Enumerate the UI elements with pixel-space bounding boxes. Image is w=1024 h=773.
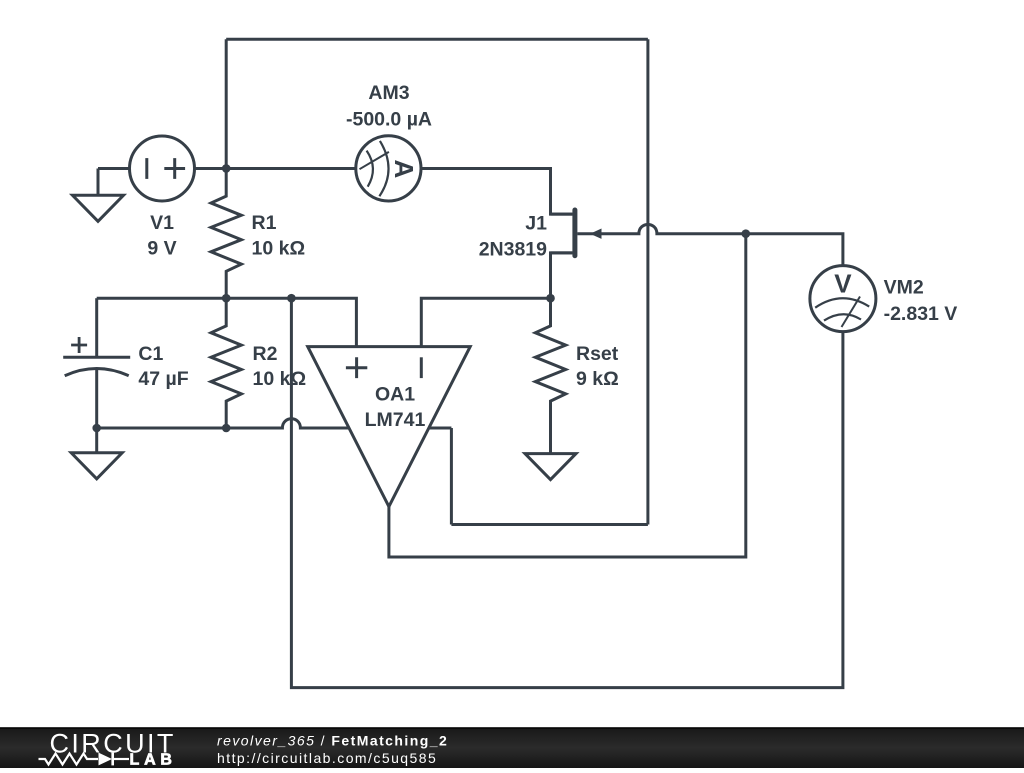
resistor R2 — [211, 298, 241, 428]
svg-text:2N3819: 2N3819 — [479, 239, 547, 261]
wire op-amp output loop — [389, 234, 746, 557]
svg-text:OA1: OA1 — [375, 383, 415, 405]
wire top-left vertical — [225, 39, 228, 168]
svg-text:-2.831 V: -2.831 V — [884, 303, 958, 325]
node R1/R2 mid — [222, 294, 231, 303]
node gate / output / VM2 — [742, 229, 751, 238]
svg-text:revolver_365 / FetMatching_2: revolver_365 / FetMatching_2 — [217, 733, 448, 749]
voltage source V1 — [130, 136, 195, 201]
wire top horizontal — [226, 38, 648, 41]
voltmeter VM2 — [810, 266, 876, 332]
transistor J1 (N-JFET) — [551, 210, 602, 256]
wire gate node to VM2 top — [746, 234, 843, 266]
svg-text:V1: V1 — [150, 212, 174, 234]
node J1 source / Rset / minus input — [546, 294, 555, 303]
node VM2 return on mid rail — [287, 294, 296, 303]
ammeter AM3 — [356, 136, 421, 201]
ground under Rset — [525, 428, 576, 480]
op-amp OA1 — [308, 347, 471, 507]
resistor Rset — [535, 298, 565, 428]
svg-text:R2: R2 — [253, 343, 278, 365]
wire mid rail y=298 to op-amp plus input — [97, 298, 357, 346]
svg-text:C1: C1 — [138, 343, 163, 365]
svg-text:A: A — [389, 160, 419, 179]
wire supply bottom horizontal — [451, 523, 648, 526]
wire op-amp minus input to node — [421, 298, 550, 346]
wire supply riser x=451 — [450, 428, 453, 525]
ground under V1 — [73, 169, 124, 222]
node C1 bottom — [92, 424, 101, 433]
svg-text:J1: J1 — [525, 213, 547, 235]
wire right vertical x=648 — [646, 39, 649, 524]
ground under C1 — [71, 428, 122, 479]
svg-text:47 µF: 47 µF — [138, 368, 188, 390]
svg-text:VM2: VM2 — [884, 277, 924, 299]
svg-text:10 kΩ: 10 kΩ — [252, 238, 306, 260]
svg-text:V: V — [834, 269, 852, 299]
wire AM3 to J1 drain — [421, 169, 573, 215]
capacitor C1 — [63, 298, 130, 428]
svg-text:LAB: LAB — [130, 751, 177, 768]
svg-text:9 kΩ: 9 kΩ — [576, 368, 619, 390]
CircuitLab logo resistor-diode icon — [39, 753, 130, 766]
resistor R1 — [211, 168, 241, 298]
wire J1 gate with hop over x=648 — [577, 224, 745, 233]
svg-text:LM741: LM741 — [365, 409, 426, 431]
wire VM2 bottom return loop — [291, 298, 843, 687]
node R2 bottom — [222, 424, 231, 433]
wire J1 source to node — [551, 253, 573, 298]
wire ground rail y=428 with hop over x=291 — [97, 419, 452, 428]
svg-text:9 V: 9 V — [147, 238, 176, 260]
svg-text:R1: R1 — [252, 212, 277, 234]
wire V1 left lead — [98, 167, 130, 170]
wire V1 right to AM3 — [195, 167, 356, 170]
svg-text:http://circuitlab.com/c5uq585: http://circuitlab.com/c5uq585 — [217, 750, 437, 766]
svg-text:10 kΩ: 10 kΩ — [253, 368, 307, 390]
node V1/R1 top — [222, 164, 231, 173]
svg-text:AM3: AM3 — [368, 82, 409, 104]
svg-text:Rset: Rset — [576, 343, 619, 365]
svg-text:-500.0 µA: -500.0 µA — [346, 108, 432, 130]
